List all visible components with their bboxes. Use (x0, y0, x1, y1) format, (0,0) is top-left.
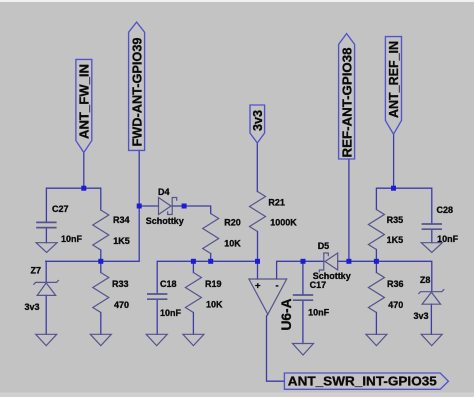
svg-text:10nF: 10nF (61, 234, 83, 244)
svg-text:D5: D5 (318, 241, 330, 251)
svg-text:C28: C28 (437, 205, 454, 215)
svg-text:ANT_REF_IN: ANT_REF_IN (386, 41, 401, 118)
svg-text:10nF: 10nF (308, 307, 330, 317)
svg-text:Z8: Z8 (420, 275, 431, 285)
svg-text:C18: C18 (160, 279, 177, 289)
svg-text:U6-A: U6-A (278, 299, 294, 331)
svg-text:R35: R35 (387, 215, 404, 225)
svg-text:REF-ANT-GPIO38: REF-ANT-GPIO38 (340, 48, 355, 158)
svg-text:1000K: 1000K (270, 218, 297, 228)
svg-text:R33: R33 (112, 279, 129, 289)
svg-text:470: 470 (388, 300, 403, 310)
svg-text:10K: 10K (206, 299, 223, 309)
svg-text:-: - (276, 281, 279, 292)
svg-text:3v3: 3v3 (25, 302, 40, 312)
svg-text:C27: C27 (52, 204, 69, 214)
svg-text:3v3: 3v3 (251, 110, 265, 131)
svg-text:1K5: 1K5 (113, 236, 130, 246)
svg-text:R20: R20 (224, 218, 241, 228)
svg-text:+: + (255, 281, 261, 292)
svg-text:ANT_SWR_INT-GPIO35: ANT_SWR_INT-GPIO35 (288, 373, 437, 388)
svg-text:R21: R21 (268, 197, 285, 207)
svg-text:10nF: 10nF (437, 234, 459, 244)
svg-text:470: 470 (114, 300, 129, 310)
svg-text:D4: D4 (158, 187, 170, 197)
svg-text:3v3: 3v3 (414, 311, 429, 321)
svg-text:Schottky: Schottky (146, 216, 184, 226)
svg-text:FWD-ANT-GPIO39: FWD-ANT-GPIO39 (130, 38, 145, 147)
svg-text:1K5: 1K5 (387, 235, 404, 245)
svg-text:ANT_FW_IN: ANT_FW_IN (77, 64, 92, 139)
svg-text:10K: 10K (224, 239, 241, 249)
svg-text:R34: R34 (113, 215, 130, 225)
svg-text:Z7: Z7 (31, 266, 42, 276)
svg-text:C17: C17 (310, 280, 327, 290)
svg-text:R36: R36 (387, 279, 404, 289)
svg-text:10nF: 10nF (160, 308, 182, 318)
svg-text:R19: R19 (205, 279, 222, 289)
